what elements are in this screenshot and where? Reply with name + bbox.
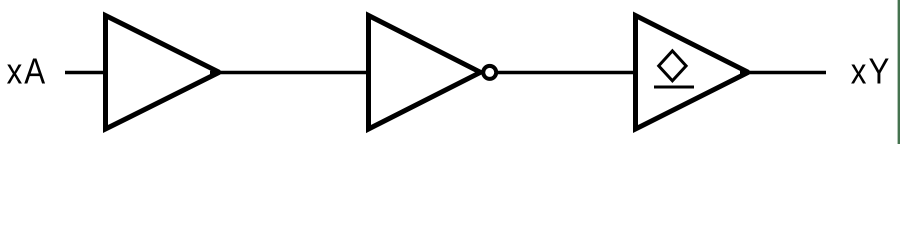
open-drain buffer U3 triangle [636, 16, 749, 130]
green page-edge line at right [898, 0, 900, 144]
open-drain underline bar inside U3 [654, 86, 694, 89]
wire input xA to U1 [65, 71, 105, 75]
wire U2 bubble to U3 input [498, 71, 635, 75]
inverter U2 output bubble [483, 66, 496, 79]
svg-text:xA: xA [7, 51, 48, 92]
svg-text:xY: xY [851, 51, 892, 92]
buffer U1 [106, 16, 220, 130]
wire U1 output to U2 input [210, 71, 368, 75]
open-drain diamond symbol inside U3 [659, 51, 686, 81]
inverter U2 triangle [369, 16, 481, 130]
wire U3 output to xY [740, 71, 826, 75]
